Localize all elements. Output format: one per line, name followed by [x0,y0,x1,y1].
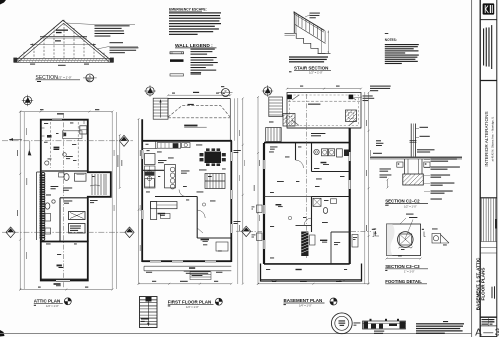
porch top edge [168,97,230,99]
title block logo box [480,19,497,21]
svg-text:1/2" = 1'-0": 1/2" = 1'-0" [404,204,417,208]
first floor top dimension line [167,94,231,96]
first floor bedroom2 interior [216,242,228,251]
title block divider 1 [480,80,497,82]
first floor kitchen extra marks [146,143,149,146]
roof slope leader annotation [97,47,109,50]
first floor sofa [151,202,178,209]
attic section line B (dash-dot) [2,231,133,233]
basement porch corner posts [287,95,292,100]
svg-text:FLOOR PLANS: FLOOR PLANS [481,268,486,301]
basement bathroom fixtures [313,198,321,206]
first floor bottom wall windows [150,260,161,262]
attic left column dim texts [26,128,29,135]
svg-text:BASEMENT PLAN: BASEMENT PLAN [284,298,323,303]
first floor right wall windows [230,152,232,161]
sheet right border line [471,0,473,337]
basement outer walls [264,128,350,264]
basement utility extra [344,150,349,157]
attic lower room label [57,265,62,267]
misc mark above notes [385,32,389,35]
attic room label smudge [54,147,60,149]
basement laundry tub [337,149,343,157]
first floor plan reference circle [215,298,222,305]
basement porch foundation outline [287,93,361,129]
basement left column dim texts [258,160,261,166]
first floor fridge and counter [145,154,156,165]
basement porch top dimension [286,88,362,90]
title block bottom line [480,336,497,337]
first floor north marker [144,85,155,96]
svg-text:1/2" = 1'-0": 1/2" = 1'-0" [57,76,72,80]
roof collar tie [40,36,87,38]
stair balusters [298,15,325,43]
basement bottom dim texts [272,280,276,283]
section c2 post annotations [416,128,420,130]
first floor hall marks [186,199,189,202]
top dim line first floor texts [172,92,175,95]
first floor kitchen upper cabinets [157,143,181,149]
attic section arrow line left [9,139,22,141]
title block divider 2 [480,197,497,199]
first floor left wall windows [141,150,143,159]
bottom right note block [443,321,448,322]
title block right border [496,0,498,337]
basement left wall windows [263,160,265,169]
attic closet dark rect 1 [69,212,86,220]
basement window well left 2 [257,205,263,213]
first floor right dimension lines [237,98,239,284]
attic lower room walls [41,242,88,281]
front porch steps [190,272,211,280]
stair treads and risers [285,33,326,53]
attic section diamond right upper [119,135,128,146]
bedroom2 label [201,239,210,241]
attic section diamond B right [125,227,134,238]
first floor house top wall [142,140,233,142]
first floor right column dim texts [238,130,241,136]
first floor interior stair to basement [205,174,225,189]
svg-text:SECTION C3–C3: SECTION C3–C3 [385,264,420,269]
section c3 side mini detail [432,234,449,244]
attic knee wall dashed lines [49,122,51,168]
attic below-wall label [54,283,61,285]
first floor island with burners [165,165,176,188]
attic upper room walls [41,120,88,170]
roof eave blocks [13,58,17,63]
basement misc smudges [270,147,278,150]
stair note text [289,56,328,62]
roof ridge leader annotation [66,23,94,25]
attic bathroom fixtures [75,173,87,181]
basement window well left [257,233,263,241]
title block info rows [482,319,495,325]
attic left fixtures mid [45,203,50,209]
title block divider 4 [480,325,497,327]
section c3 cut markers [372,229,375,230]
attic interior wall above bath [41,170,88,172]
attic right column dim texts [113,150,116,156]
first floor roof reference circle [222,89,230,97]
title block left border [479,0,481,337]
utility room label [321,162,327,164]
basement porch footing right [346,110,357,122]
svg-text:NOTES:: NOTES: [385,38,397,42]
living room label [158,213,166,215]
roof section slope reinforce [14,20,113,62]
title block divider 3 [480,316,497,318]
sheet bottom border line [0,333,472,335]
attic stair bumpout treads [92,174,104,195]
svg-text:1/4" = 1'-0": 1/4" = 1'-0" [299,304,312,308]
basement utility room walls [311,143,313,172]
first floor section diamond right [236,230,252,232]
section c3 square footing plan [387,224,421,256]
basement washer dryer [322,149,328,156]
basement C3 marker right [374,229,377,230]
first floor door arcs [179,190,205,234]
attic centerline vertical dashed [63,113,65,288]
basement plan reference circle [330,298,337,305]
porch beam label [188,104,194,105]
section c2 left annotations [380,169,391,172]
first floor bottom wall [142,260,231,262]
attic misc extra smudges [90,200,98,203]
basement section line (dash-dot) [248,230,262,232]
stair bottom floor line [318,53,331,55]
first floor left wall [141,119,143,262]
section c3 inner square [399,234,412,245]
bottom-left stair detail [140,297,158,328]
attic closet dark rect 2 [69,224,86,234]
svg-text:1/2" = 1'-0": 1/2" = 1'-0" [309,71,323,75]
attic lower room window [56,280,70,282]
section c3 annotation top [406,213,414,216]
first floor left column dim texts [139,150,142,156]
attic section line A (dash-dot) [2,140,133,142]
porch left stair [153,98,168,119]
first floor dining extra chairs/marks [196,144,202,147]
svg-text:FIRST FLOOR PLAN: FIRST FLOOR PLAN [168,299,212,304]
recreation room label [276,204,282,206]
svg-text:1" = 1'-0": 1" = 1'-0" [404,270,415,274]
attic left wall insulation squiggle [42,172,45,240]
notes body [385,44,419,64]
basement centerline dashed [305,94,307,258]
svg-text:1/4" = 1'-0": 1/4" = 1'-0" [186,305,199,309]
attic left dimension line [19,111,21,291]
section c2 right annotations [424,159,430,161]
attic section diamond B left [6,227,15,238]
storage label [296,269,302,270]
attic plan north marker [22,95,33,106]
first floor dining table group [205,152,222,164]
attic bottom dimension line [19,289,113,291]
basement crawl space strip [261,264,362,282]
attic roof footprint right line [111,112,113,289]
section c2 footing hatched [403,174,424,185]
first floor interior walls [142,169,164,171]
basement top-left stair [269,97,283,117]
svg-text:A—3: A—3 [475,327,499,337]
roof interior dimension arrows [30,44,96,46]
wall legend symbol 3 - wall to be removed [170,74,184,76]
section detail marker A [86,74,94,82]
section c3 dimensions below [386,258,422,260]
porch dim verticals first floor [234,98,236,140]
attic section arrow left [28,150,32,156]
wall legend symbol 2 - new wall solid [170,59,184,62]
section c3 circle pier [398,232,414,248]
basement right wall windows [349,152,351,161]
attic misc interior marks upper [45,161,49,165]
sheet corner mark top-left [0,0,6,5]
attic plan top dimension line [19,111,113,113]
section c2 deck surface [370,156,462,158]
svg-text:FOOTING DETAIL: FOOTING DETAIL [385,279,422,284]
basement north marker [262,85,273,96]
attic roof footprint left line [23,112,25,289]
attic mid-section outer walls [37,168,111,242]
attic right dimension lines [115,112,117,289]
architect stamp seal [331,313,352,334]
svg-text:ATTIC PLAN: ATTIC PLAN [34,299,60,304]
basement water heater [314,149,319,154]
basement furnace hatched [301,232,308,257]
wood base detail drawing [363,321,406,329]
attic mid interior wall 2 [60,197,88,199]
first floor bottom dim texts [152,280,156,283]
front porch side labels [146,271,152,274]
sheet corner mark bottom-left [0,330,5,337]
front porch lines [144,265,231,267]
svg-text:R: R [225,89,227,93]
stair section drawing [294,12,326,44]
basement stair run 2 [266,128,282,142]
first floor kitchen sink counter [145,172,155,176]
emergency escape note body [169,12,221,35]
first floor kitchen smudge labels [147,149,150,152]
basement porch beam dashed + label [288,100,360,102]
wall legend symbol 1 - existing wall [170,52,184,54]
svg-text:INTERIOR ALTERATIONS: INTERIOR ALTERATIONS [484,111,489,166]
roof section drawing [14,20,113,62]
basement bedroom label [320,240,327,241]
basement porch footing left [283,114,295,127]
section c2 top-left annotation [370,86,391,92]
first floor right wall [230,141,232,262]
basement interior extra walls [264,196,312,198]
basement rec room interior wall [295,143,297,160]
svg-text:at 4142 N. Ottawa Ave. – Norri: at 4142 N. Ottawa Ave. – Norridge, IL [490,116,494,161]
section c2 below-grade pier [405,159,423,174]
svg-text:EMERGENCY ESCAPE:: EMERGENCY ESCAPE: [169,8,207,12]
svg-text:1/4" = 1'-0": 1/4" = 1'-0" [46,304,59,308]
stair right dimension line [327,31,329,54]
front porch label [189,267,195,269]
section c2 left dimension [387,179,389,189]
svg-text:BASEMENT, 1 ST, ATTIC: BASEMENT, 1 ST, ATTIC [475,257,480,310]
roof rafter tie verticals (dashed) [24,20,104,58]
crawl wall window hatches [272,280,344,281]
attic closet top right [80,126,87,134]
basement right dimension lines [364,92,366,284]
attic mid smudge texts [51,186,59,189]
stair rail annotation [305,15,310,17]
first floor left dimension line [138,118,140,285]
title block revision table [480,199,497,254]
basement interior extra marks [269,151,274,154]
basement bottom dimension line [257,283,370,285]
attic plan reference circle [64,298,71,305]
title block architect info rotated text [483,25,492,69]
porch beam dashed trapezoid [168,106,230,118]
basement left dimension line [257,96,259,285]
attic upper room interior marks [44,122,48,125]
section c2 cut labels [397,162,403,167]
svg-text:SECTION C2–C2: SECTION C2–C2 [385,199,420,204]
basement right column dim texts [365,120,368,126]
first floor right wall annotations [234,150,241,153]
first floor coffee table [161,214,171,219]
first floor bottom dimension line [138,283,233,285]
attic upper room window marks [52,119,62,121]
basement bathroom walls [312,196,350,198]
open deck porch label [184,125,197,127]
attic bed rectangle [63,131,83,139]
basement window well right [352,235,358,248]
section c2 post [411,124,415,157]
basement top-right annotation [363,96,375,102]
roof joist hatching [14,59,112,62]
